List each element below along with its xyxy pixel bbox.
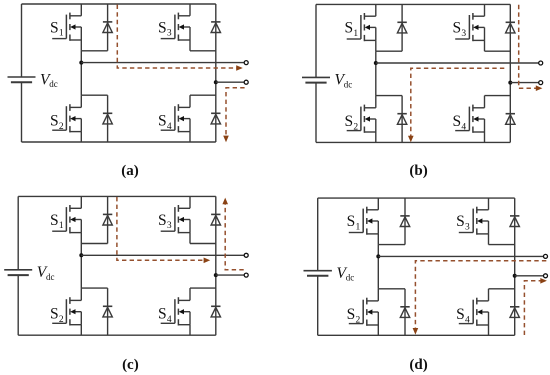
svg-text:2: 2 — [353, 122, 358, 132]
svg-text:S: S — [50, 113, 59, 130]
svg-text:(b): (b) — [409, 163, 427, 179]
svg-text:dc: dc — [344, 79, 353, 89]
svg-text:4: 4 — [167, 122, 172, 132]
svg-text:3: 3 — [167, 29, 172, 39]
svg-text:(c): (c) — [122, 357, 139, 373]
svg-text:S: S — [347, 213, 356, 230]
svg-text:S: S — [345, 113, 354, 130]
svg-text:S: S — [158, 113, 167, 130]
svg-text:4: 4 — [167, 315, 172, 325]
svg-text:S: S — [50, 306, 59, 323]
svg-text:S: S — [158, 212, 167, 229]
svg-text:1: 1 — [353, 29, 358, 39]
svg-text:dc: dc — [49, 79, 58, 89]
svg-text:(d): (d) — [409, 357, 427, 373]
svg-text:4: 4 — [461, 122, 466, 132]
svg-text:3: 3 — [167, 221, 172, 231]
svg-text:S: S — [158, 306, 167, 323]
svg-text:2: 2 — [59, 122, 64, 132]
svg-text:S: S — [456, 213, 465, 230]
svg-text:S: S — [50, 212, 59, 229]
svg-text:S: S — [453, 20, 462, 37]
svg-text:S: S — [50, 19, 59, 36]
svg-text:(a): (a) — [121, 163, 139, 179]
svg-text:S: S — [345, 20, 354, 37]
svg-text:1: 1 — [356, 223, 361, 233]
svg-text:2: 2 — [59, 315, 64, 325]
svg-text:dc: dc — [346, 273, 355, 283]
svg-text:S: S — [158, 19, 167, 36]
svg-text:2: 2 — [356, 315, 361, 325]
svg-text:S: S — [347, 306, 356, 323]
svg-text:1: 1 — [59, 29, 64, 39]
svg-text:dc: dc — [46, 272, 55, 282]
svg-text:S: S — [456, 306, 465, 323]
svg-text:S: S — [453, 113, 462, 130]
svg-text:1: 1 — [59, 221, 64, 231]
svg-text:3: 3 — [465, 223, 470, 233]
svg-text:3: 3 — [461, 29, 466, 39]
svg-text:4: 4 — [465, 315, 470, 325]
